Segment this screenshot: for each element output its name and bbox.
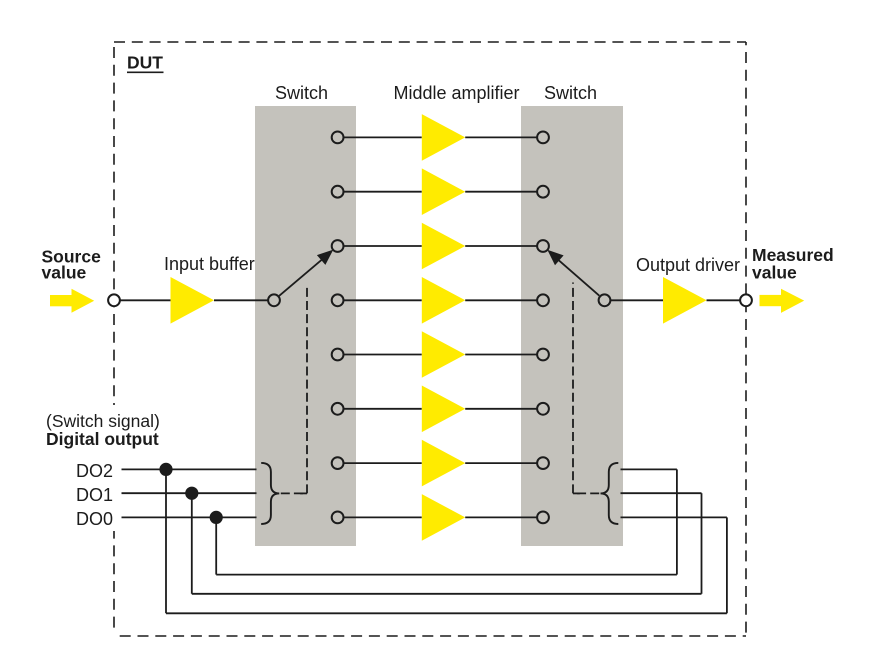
wire row7 right (amplifier to node) bbox=[465, 462, 537, 464]
node row6 right bbox=[537, 403, 549, 415]
wire: DO0 into right brace bbox=[621, 468, 677, 470]
node row6 left bbox=[332, 403, 344, 415]
wire row2 right (amplifier to node) bbox=[465, 191, 537, 193]
wire row2 left (node to amplifier) bbox=[344, 191, 422, 193]
middle amplifier A6 bbox=[422, 386, 465, 433]
wire: right pivot to output driver bbox=[610, 299, 663, 301]
wire row7 left (node to amplifier) bbox=[344, 462, 422, 464]
svg-text:Middle amplifier: Middle amplifier bbox=[393, 83, 519, 103]
node: right switch pivot bbox=[599, 294, 611, 306]
junction dot DO0 bbox=[210, 511, 223, 524]
wire: source node to input buffer bbox=[120, 299, 171, 301]
junction dot DO2 bbox=[159, 463, 172, 476]
node row8 left bbox=[332, 512, 344, 524]
DUT boundary box (dashed) bbox=[114, 42, 746, 636]
svg-text:DUT: DUT bbox=[127, 53, 163, 73]
node row1 right bbox=[537, 132, 549, 144]
wire row4 right (amplifier to node) bbox=[465, 299, 537, 301]
middle amplifier A4 bbox=[422, 277, 465, 324]
wire row1 left (node to amplifier) bbox=[344, 136, 422, 138]
wire: DO2 bottom run bbox=[166, 612, 727, 614]
input buffer amplifier bbox=[171, 277, 215, 324]
middle amplifier A2 bbox=[422, 168, 465, 215]
svg-text:DO1: DO1 bbox=[76, 485, 113, 505]
output driver amplifier bbox=[663, 277, 707, 324]
right brace (bus gather) bbox=[601, 463, 619, 524]
middle amplifier A7 bbox=[422, 440, 465, 487]
svg-text:Digital output: Digital output bbox=[46, 429, 159, 449]
wire row5 left (node to amplifier) bbox=[344, 354, 422, 356]
wire: DO0 bottom run bbox=[216, 574, 677, 576]
white knockout behind digital output labels bbox=[104, 405, 125, 531]
wire: input buffer to switch pivot bbox=[214, 299, 268, 301]
wire: output driver to output node bbox=[707, 299, 741, 301]
wire row8 right (amplifier to node) bbox=[465, 516, 537, 518]
node row7 right bbox=[537, 457, 549, 469]
wire: DO0 vertical drop bbox=[215, 517, 217, 574]
dashed control line (left switch) bbox=[281, 286, 307, 493]
wire row4 left (node to amplifier) bbox=[344, 299, 422, 301]
wire: DO1 to left brace bbox=[122, 492, 257, 494]
wire: DO2 into right brace bbox=[621, 516, 727, 518]
left switch arm with arrowhead bbox=[279, 250, 333, 296]
node row4 left bbox=[332, 294, 344, 306]
dashed control line (right switch) bbox=[573, 283, 599, 494]
junction dot DO1 bbox=[185, 487, 198, 500]
wire: DO2 to left brace bbox=[122, 468, 257, 470]
svg-text:(Switch signal): (Switch signal) bbox=[46, 411, 160, 431]
label: DUT bbox=[127, 53, 164, 73]
svg-text:Switch: Switch bbox=[275, 83, 328, 103]
node row7 left bbox=[332, 457, 344, 469]
right switch arm with arrowhead bbox=[547, 250, 599, 296]
node row1 left bbox=[332, 132, 344, 144]
svg-text:DO0: DO0 bbox=[76, 509, 113, 529]
svg-text:value: value bbox=[42, 263, 87, 283]
svg-text:DO2: DO2 bbox=[76, 461, 113, 481]
node row4 right bbox=[537, 294, 549, 306]
wire: DO1 right riser bbox=[701, 493, 703, 594]
node row5 left bbox=[332, 349, 344, 361]
middle amplifier A5 bbox=[422, 331, 465, 378]
wire row3 right (amplifier to node) bbox=[465, 245, 537, 247]
node row2 left bbox=[332, 186, 344, 198]
node row8 right bbox=[537, 512, 549, 524]
wire row3 left (node to amplifier) bbox=[344, 245, 422, 247]
source input arrow bbox=[50, 289, 94, 313]
svg-text:Switch: Switch bbox=[544, 83, 597, 103]
wire row6 left (node to amplifier) bbox=[344, 408, 422, 410]
wire row5 right (amplifier to node) bbox=[465, 354, 537, 356]
Measured value label bbox=[752, 245, 834, 282]
left brace (bus gather) bbox=[261, 463, 279, 524]
node row2 right bbox=[537, 186, 549, 198]
wire: DO0 to left brace bbox=[122, 516, 257, 518]
node row5 right bbox=[537, 349, 549, 361]
wire row6 right (amplifier to node) bbox=[465, 408, 537, 410]
svg-text:Input buffer: Input buffer bbox=[164, 254, 255, 274]
node: source input bbox=[108, 294, 120, 306]
wire: DO2 vertical drop bbox=[165, 469, 167, 613]
left switch block bbox=[255, 106, 356, 546]
middle amplifier A3 bbox=[422, 223, 465, 270]
wire: DO1 into right brace bbox=[621, 492, 702, 494]
wire: DO1 vertical drop bbox=[191, 493, 193, 594]
node: left switch pivot bbox=[268, 294, 280, 306]
wire: DO1 bottom run bbox=[192, 593, 702, 595]
middle amplifier A8 bbox=[422, 494, 465, 541]
right switch block bbox=[521, 106, 623, 546]
wire: DO0 right riser bbox=[676, 469, 678, 574]
measured output arrow bbox=[760, 289, 805, 313]
Source value label bbox=[42, 246, 102, 282]
node row3 right bbox=[537, 240, 549, 252]
node: measured output bbox=[740, 294, 752, 306]
svg-text:Output driver: Output driver bbox=[636, 255, 740, 275]
wire row1 right (amplifier to node) bbox=[465, 136, 537, 138]
svg-text:value: value bbox=[752, 263, 797, 283]
middle amplifier A1 bbox=[422, 114, 465, 161]
wire row8 left (node to amplifier) bbox=[344, 516, 422, 518]
node row3 left bbox=[332, 240, 344, 252]
wire: DO2 right riser bbox=[726, 517, 728, 613]
